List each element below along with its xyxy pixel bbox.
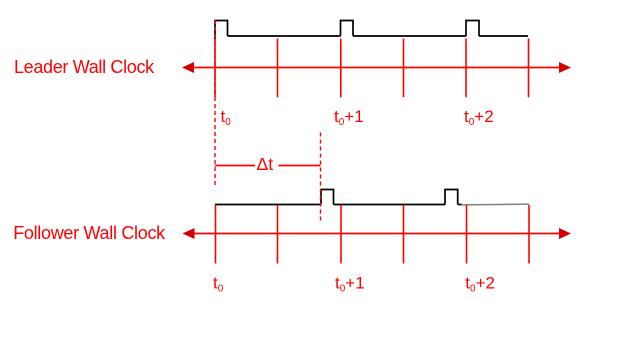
svg-text:Follower Wall Clock: Follower Wall Clock <box>13 223 166 243</box>
follower baseline segment 1 <box>334 204 446 206</box>
svg-text:t0+1: t0+1 <box>334 107 364 128</box>
svg-text:t0: t0 <box>221 107 232 128</box>
follower tick at t0 <box>215 205 217 264</box>
follower tick 2 <box>277 205 279 264</box>
leader tick 6 <box>528 39 530 98</box>
follower pulse at t0+2 <box>445 190 458 205</box>
follower tick at t0+2 <box>466 205 468 264</box>
follower t0 dashed reference line <box>320 133 322 221</box>
t0 dashed reference line (leader) <box>214 20 216 186</box>
delta-t left measure line <box>215 165 255 167</box>
leader pulse at t0 <box>215 21 228 40</box>
leader axis left arrowhead <box>182 62 194 73</box>
leader tick 4 <box>403 39 405 98</box>
follower pulse at t0+1 <box>321 190 334 205</box>
leader baseline segment 3 <box>479 35 528 37</box>
follower baseline segment 2 <box>458 204 462 206</box>
leader timeline axis line <box>189 67 564 69</box>
svg-text:Leader Wall Clock: Leader Wall Clock <box>14 57 155 77</box>
follower baseline segment 0 <box>215 204 321 206</box>
leader baseline segment 1 <box>228 35 341 37</box>
follower timeline axis line <box>189 233 564 235</box>
leader pulse at t0+2 <box>466 21 479 37</box>
svg-text:t0+1: t0+1 <box>335 274 365 295</box>
leader tick at t0 <box>214 39 216 98</box>
follower trailing gray baseline segment <box>461 203 529 206</box>
leader tick 2 <box>277 39 279 98</box>
follower tick at t0+1 <box>340 205 342 264</box>
leader baseline segment 2 <box>353 35 466 37</box>
svg-text:t0: t0 <box>213 274 224 295</box>
svg-text:t0+2: t0+2 <box>464 107 494 128</box>
follower axis left arrowhead <box>183 228 195 239</box>
follower tick 4 <box>403 205 405 264</box>
leader tick at t0+1 <box>340 39 342 98</box>
svg-text:Δt: Δt <box>257 154 274 174</box>
leader tick at t0+2 <box>465 39 467 98</box>
svg-text:t0+2: t0+2 <box>465 274 495 295</box>
delta-t right measure line <box>279 165 321 167</box>
follower tick 6 <box>528 205 530 264</box>
leader axis right arrowhead <box>559 62 571 73</box>
leader pulse at t0+1 <box>341 21 354 37</box>
follower axis right arrowhead <box>559 228 571 239</box>
